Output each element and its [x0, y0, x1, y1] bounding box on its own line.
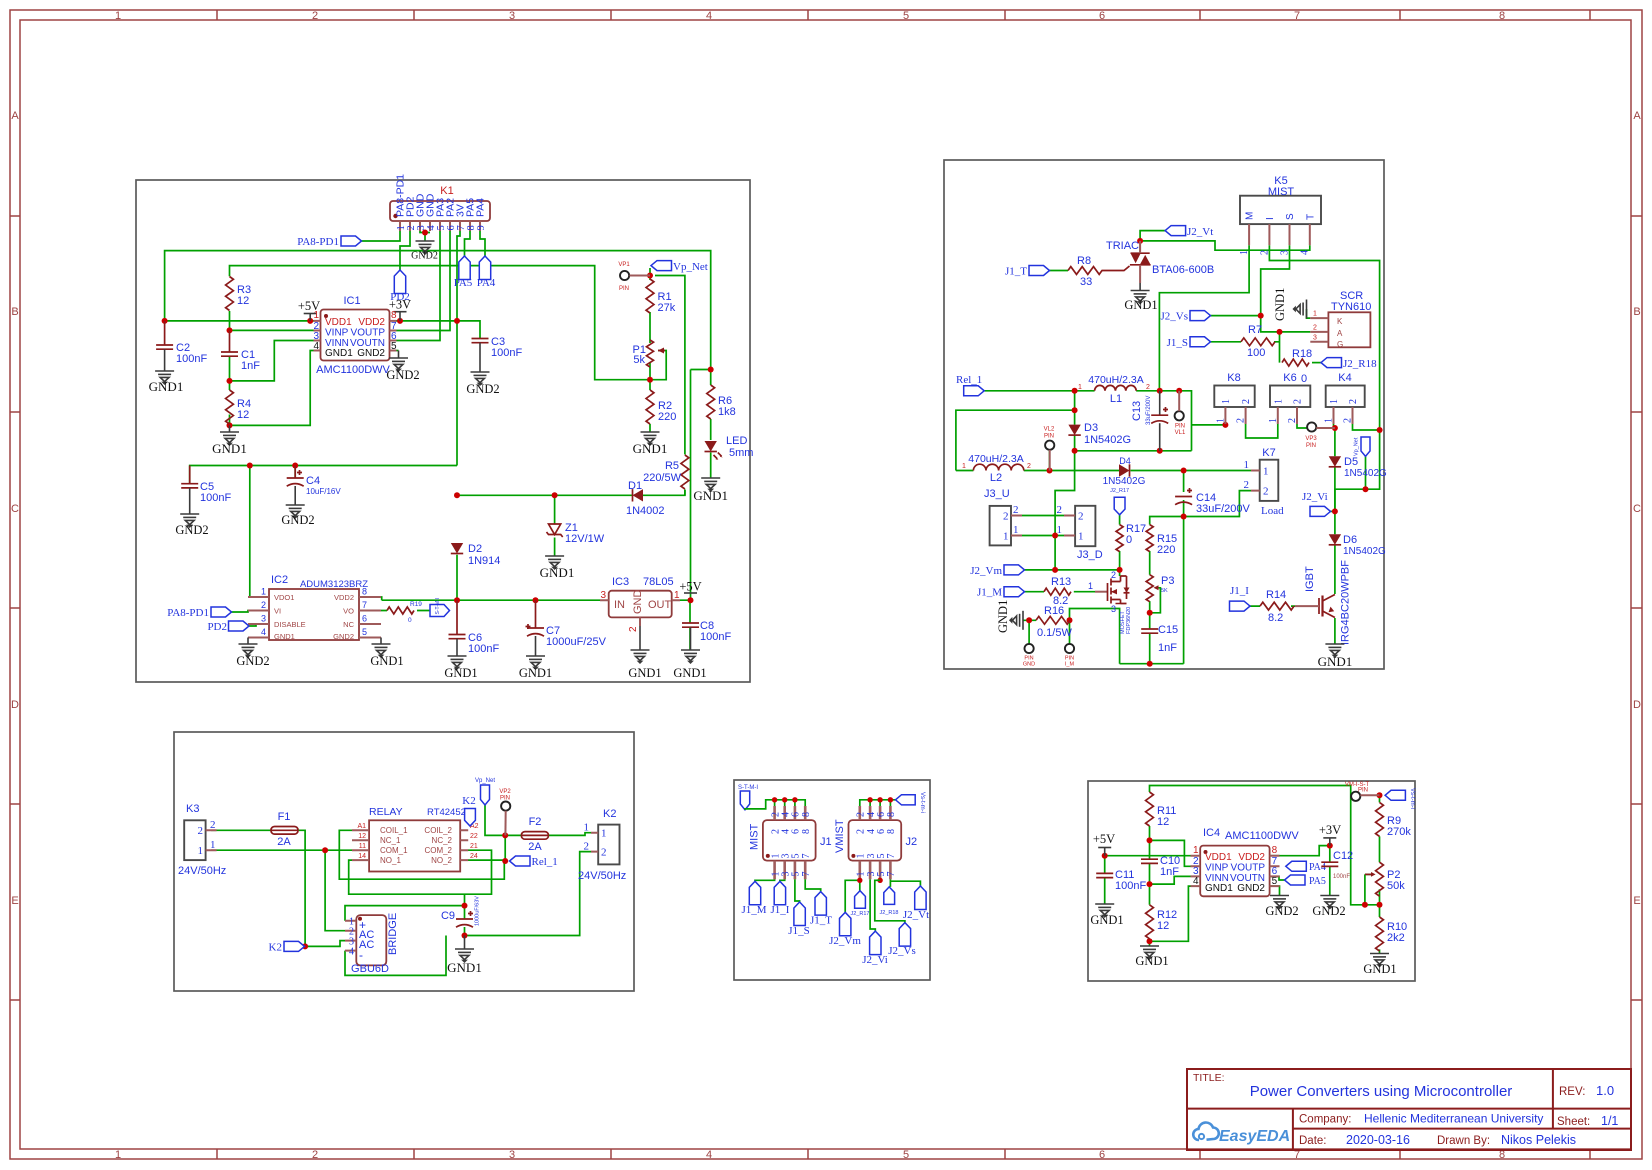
- resistor R19: [387, 607, 414, 614]
- svg-text:1: 1: [1268, 418, 1279, 423]
- ground GND1 under C6: [456, 639, 458, 656]
- svg-text:470uH/2.3A: 470uH/2.3A: [968, 453, 1023, 465]
- svg-text:4: 4: [1300, 250, 1311, 255]
- wire PD2 to IC2 pin3: [249, 624, 269, 626]
- wire J2 top pins: [860, 800, 896, 806]
- svg-text:J1: J1: [820, 836, 832, 848]
- svg-text:1: 1: [1078, 384, 1082, 391]
- block3 border: [174, 732, 634, 991]
- svg-text:24: 24: [470, 853, 478, 860]
- svg-text:33: 33: [1080, 276, 1092, 288]
- connector J3_U: [990, 506, 1011, 546]
- diode D4 1N5402G: [1119, 464, 1130, 476]
- net flag J2_R17 down: [1114, 497, 1125, 515]
- wire NO_2 and Rel_1 flag: [468, 859, 505, 862]
- svg-text:PA8-PD1: PA8-PD1: [297, 236, 339, 248]
- svg-text:5mm: 5mm: [729, 447, 753, 459]
- resistor R8: [1068, 267, 1102, 275]
- title block outer box: [1187, 1069, 1631, 1150]
- svg-text:2: 2: [1313, 324, 1317, 331]
- svg-text:Hellenic Mediterranean Univers: Hellenic Mediterranean University: [1364, 1112, 1543, 1126]
- net flag J1_I: [1230, 601, 1251, 611]
- svg-text:IRG4BC20WPBF: IRG4BC20WPBF: [1340, 560, 1352, 645]
- ground GND1 rotated at R16: [1010, 611, 1023, 630]
- svg-text:1: 1: [198, 845, 204, 857]
- TRIAC BTA06-600B: [1131, 253, 1141, 263]
- junction dots block2: [1137, 238, 1143, 244]
- svg-text:VDD2: VDD2: [334, 593, 354, 602]
- resistor R10: [1376, 917, 1384, 951]
- svg-text:7: 7: [886, 872, 897, 877]
- svg-text:J3_D: J3_D: [1077, 549, 1103, 561]
- ground GND1 rotated at SCR: [1294, 300, 1307, 319]
- svg-text:C: C: [1633, 503, 1641, 515]
- svg-text:3: 3: [1111, 604, 1116, 614]
- svg-text:3: 3: [261, 614, 266, 624]
- svg-text:Sheet:: Sheet:: [1557, 1116, 1590, 1128]
- wire J2_Vs node down to R7 node: [1211, 316, 1311, 332]
- svg-text:L2: L2: [990, 472, 1002, 484]
- ground GND2 under C12: [1320, 896, 1339, 909]
- power +3V block5: [1323, 837, 1336, 839]
- svg-text:2: 2: [1241, 399, 1252, 404]
- svg-text:1N5402G: 1N5402G: [1343, 546, 1386, 557]
- svg-text:0.1/5W: 0.1/5W: [1037, 627, 1072, 639]
- svg-text:VL1: VL1: [1175, 430, 1186, 436]
- svg-text:1: 1: [601, 828, 607, 840]
- wire TRIAC gate to R8: [1050, 270, 1069, 272]
- svg-text:2: 2: [1013, 504, 1019, 516]
- svg-text:K2: K2: [603, 808, 616, 820]
- svg-text:1N5402G: 1N5402G: [1344, 468, 1387, 479]
- wire R11 to C10 junction: [1150, 826, 1191, 866]
- wire K3 pin1 to relay COM_1 and bridge AC2: [211, 850, 352, 931]
- svg-text:R14: R14: [1266, 589, 1286, 601]
- svg-text:E: E: [1633, 895, 1640, 907]
- connector K2 right: [598, 825, 619, 865]
- wire P2 bottom to R10: [1365, 874, 1380, 953]
- ground GND1 under LED: [701, 478, 720, 491]
- wire Vp_Net flag drop: [1365, 456, 1367, 489]
- wire C9 column: [464, 906, 466, 936]
- net flag J2_Vs: [1190, 311, 1211, 321]
- ground GND1 under IC3: [639, 626, 641, 650]
- wire MOSFET bottom rail: [1120, 663, 1184, 665]
- svg-text:5: 5: [362, 627, 367, 637]
- wire K1 pin8 to PA5: [465, 231, 471, 256]
- svg-text:VP1: VP1: [618, 262, 630, 268]
- svg-text:3: 3: [509, 1149, 515, 1161]
- svg-text:VO: VO: [343, 607, 354, 616]
- svg-text:J1_I: J1_I: [1230, 585, 1249, 597]
- ground GND2 under IC1 pin5: [397, 350, 399, 352]
- svg-text:6: 6: [362, 614, 367, 624]
- svg-text:R18: R18: [1292, 348, 1312, 360]
- svg-text:GND1: GND1: [519, 666, 552, 680]
- svg-text:2: 2: [1263, 486, 1269, 498]
- resistor R9: [1376, 802, 1384, 836]
- svg-text:PA5: PA5: [454, 277, 473, 289]
- relay K5: [1240, 196, 1321, 224]
- svg-text:2020-03-16: 2020-03-16: [1346, 1133, 1410, 1147]
- net flag J2_Vt: [915, 886, 926, 910]
- svg-text:C4: C4: [306, 475, 320, 487]
- svg-text:8: 8: [1272, 845, 1278, 856]
- svg-text:GND2: GND2: [1265, 904, 1298, 918]
- connector K7: [1260, 460, 1279, 501]
- svg-text:78L05: 78L05: [643, 576, 674, 588]
- svg-text:K2: K2: [462, 795, 475, 807]
- pin VP3: [1307, 422, 1316, 431]
- wire D3 bottom rail: [1075, 450, 1192, 452]
- svg-text:BTA06-600B: BTA06-600B: [1152, 264, 1214, 276]
- pin PIN GND: [1025, 644, 1034, 653]
- wire VP1 node to R5 column: [650, 268, 685, 455]
- svg-text:1: 1: [1216, 418, 1227, 423]
- svg-text:GND2: GND2: [175, 523, 208, 537]
- net flag J1_T: [1029, 266, 1050, 276]
- svg-text:PIN: PIN: [500, 796, 510, 802]
- resistor R15: [1146, 525, 1153, 552]
- svg-text:GND1: GND1: [628, 666, 661, 680]
- svg-text:C13: C13: [1131, 401, 1143, 421]
- svg-text:GBU6D: GBU6D: [351, 963, 389, 975]
- frame row ticks left: [10, 216, 20, 1000]
- svg-text:R5: R5: [665, 460, 679, 472]
- MOSFET FDP36N20: [1095, 576, 1127, 604]
- net flag PA4 block5: [1286, 861, 1307, 871]
- wire +5V rail: [165, 251, 711, 601]
- svg-text:IC1: IC1: [343, 295, 360, 307]
- svg-text:33uF/200V: 33uF/200V: [1146, 396, 1152, 425]
- svg-text:FDP36N20: FDP36N20: [1126, 607, 1132, 634]
- svg-text:D3: D3: [1084, 422, 1098, 434]
- svg-text:R8: R8: [1077, 255, 1091, 267]
- svg-text:GND2: GND2: [1237, 883, 1265, 894]
- wire top rail R11 to P2 column: [1150, 786, 1380, 905]
- svg-text:PIN: PIN: [1306, 443, 1316, 449]
- svg-text:J2_Vs: J2_Vs: [1160, 311, 1188, 323]
- svg-text:GND2: GND2: [236, 654, 269, 668]
- inductor L1: [1095, 385, 1137, 390]
- net flag S-T-M-I: [740, 791, 749, 810]
- svg-text:2: 2: [198, 825, 204, 837]
- svg-text:7: 7: [886, 854, 897, 859]
- wire R1 P1 R2 column: [649, 312, 651, 432]
- capacitor C15: [1141, 629, 1158, 633]
- wire K1 pin1 to PA8-PD1 flag: [361, 231, 400, 241]
- svg-text:100nF: 100nF: [491, 347, 522, 359]
- wire IC3 out to +5V: [680, 600, 690, 623]
- svg-text:12V/1W: 12V/1W: [565, 533, 605, 545]
- svg-text:J3_U: J3_U: [984, 488, 1010, 500]
- svg-text:1: 1: [1324, 418, 1335, 423]
- wire P2 wiper: [1365, 873, 1372, 875]
- junction dots block3: [322, 847, 328, 853]
- fuse F1: [271, 827, 298, 835]
- bridge GBU6D: [356, 915, 386, 965]
- svg-text:REV:: REV:: [1559, 1086, 1585, 1098]
- diode D3 1N5402G: [1068, 425, 1080, 436]
- title block row divider 1: [1187, 1108, 1631, 1110]
- capacitor C3: [472, 339, 489, 343]
- wire J2 pin5 to J2_Vs: [875, 880, 905, 922]
- diode D1 1N4002: [633, 489, 644, 501]
- capacitor C13 polarized: [1159, 391, 1161, 415]
- svg-text:D: D: [1633, 699, 1641, 711]
- net flag J2_Vi: [1310, 506, 1331, 516]
- capacitor C14 polarized: [1175, 497, 1192, 505]
- svg-text:TYN610: TYN610: [1331, 301, 1371, 313]
- svg-text:Load: Load: [1261, 505, 1284, 517]
- wire C11 column: [1104, 856, 1106, 904]
- relay RT424524: [369, 820, 460, 871]
- svg-text:NO_1: NO_1: [380, 856, 401, 865]
- svg-text:11: 11: [359, 843, 366, 850]
- svg-text:1: 1: [1329, 399, 1340, 404]
- svg-text:K7: K7: [1262, 447, 1275, 459]
- svg-text:GND1: GND1: [212, 441, 247, 456]
- svg-text:NO_2: NO_2: [431, 856, 452, 865]
- svg-text:M: M: [1245, 212, 1256, 220]
- svg-text:27k: 27k: [658, 302, 676, 314]
- svg-text:VDD2: VDD2: [358, 317, 385, 328]
- block2 border: [944, 160, 1384, 669]
- wire IC1 pin3 VINN: [230, 341, 314, 381]
- svg-text:GND1: GND1: [693, 488, 728, 503]
- svg-text:8: 8: [886, 829, 897, 834]
- svg-text:1: 1: [115, 1149, 121, 1161]
- capacitor C1: [229, 330, 231, 352]
- svg-text:TITLE:: TITLE:: [1193, 1072, 1225, 1084]
- ground GND1 under IC2 pin5: [380, 638, 382, 645]
- svg-text:1: 1: [1263, 466, 1269, 478]
- svg-text:Vp_Net: Vp_Net: [475, 778, 495, 784]
- wire Vp_Net rail R3 to P1: [230, 266, 651, 380]
- svg-text:K3: K3: [186, 803, 199, 815]
- SCR TYN610: [1328, 312, 1370, 347]
- ground GND1 under R10: [1370, 954, 1389, 967]
- svg-text:GND1: GND1: [370, 654, 403, 668]
- junction dots J2 bottom: [857, 878, 862, 883]
- inductor L2: [973, 464, 1023, 470]
- net flag Rel_1: [964, 386, 985, 396]
- capacitor C10: [1141, 859, 1158, 863]
- wire R7 to R18: [1211, 332, 1280, 363]
- svg-text:B: B: [1633, 306, 1640, 318]
- wire R14 to IGBT gate: [1250, 605, 1295, 607]
- wire K6 pin2 to VP3: [1297, 424, 1307, 428]
- resistor R3: [226, 277, 234, 311]
- net flag K2 top: [465, 809, 476, 827]
- svg-text:C: C: [11, 503, 19, 515]
- svg-text:P3: P3: [1161, 575, 1174, 587]
- wire J2_Vm rail: [1025, 569, 1120, 571]
- resistor R5: [681, 455, 689, 489]
- wire 3V column K1 pin7: [457, 231, 460, 466]
- svg-text:2A: 2A: [528, 841, 542, 853]
- svg-text:270k: 270k: [1387, 826, 1411, 838]
- EasyEDA logo cloud: [1193, 1123, 1219, 1140]
- svg-text:Vs-t-m-i: Vs-t-m-i: [1409, 788, 1415, 809]
- capacitor C5: [189, 466, 191, 484]
- ground GND2 under K1: [416, 241, 435, 254]
- svg-text:DISABLE: DISABLE: [274, 620, 306, 629]
- svg-text:2: 2: [210, 819, 216, 831]
- svg-text:LED: LED: [726, 435, 747, 447]
- svg-text:GND2: GND2: [333, 632, 354, 641]
- wire K1 pin5 to VOUTN: [397, 231, 441, 341]
- wire R6 LED column: [691, 370, 711, 479]
- pin VL2: [1045, 441, 1054, 450]
- svg-text:GND1: GND1: [1135, 954, 1168, 968]
- svg-text:1N4002: 1N4002: [626, 505, 665, 517]
- wire C12 column: [1329, 846, 1331, 896]
- svg-text:2: 2: [312, 1149, 318, 1161]
- svg-text:GND1: GND1: [1090, 913, 1123, 927]
- net flag PA8-PD1 at IC2: [211, 607, 232, 617]
- svg-text:470uH/2.3A: 470uH/2.3A: [1088, 374, 1143, 386]
- svg-text:I: I: [1265, 217, 1276, 220]
- svg-text:12: 12: [1157, 816, 1169, 828]
- capacitor C2: [164, 321, 166, 345]
- svg-text:J2_Vt: J2_Vt: [1187, 226, 1213, 238]
- wire Rel_1 to L1: [985, 390, 1095, 392]
- svg-text:VOUTP: VOUTP: [1231, 863, 1266, 874]
- wire K5 pin1 to spine: [1159, 245, 1249, 390]
- block4 border: [734, 780, 930, 980]
- title block row divider 2: [1293, 1128, 1631, 1130]
- svg-text:BRIDGE: BRIDGE: [387, 913, 399, 955]
- svg-text:2: 2: [261, 600, 266, 610]
- svg-text:100nF: 100nF: [176, 353, 207, 365]
- svg-text:Rel_1: Rel_1: [956, 374, 982, 386]
- svg-text:J1_I: J1_I: [771, 904, 790, 916]
- svg-text:6: 6: [1099, 10, 1105, 22]
- ground GND1 under Z1: [545, 556, 564, 569]
- capacitor C12: [1321, 862, 1338, 866]
- svg-text:IC3: IC3: [612, 576, 629, 588]
- ground GND1 under C8: [690, 627, 692, 650]
- wire J3_U to J3_D pins: [1022, 516, 1064, 536]
- wire K1 pins3-4 GND2: [420, 231, 430, 241]
- capacitor C11: [1096, 873, 1113, 877]
- pin VP1: [620, 271, 629, 280]
- svg-text:1nF: 1nF: [1158, 642, 1177, 654]
- net flag J2_Vi: [870, 931, 881, 955]
- net flag PA8-PD1 top: [341, 236, 362, 246]
- net flag PA5: [459, 256, 470, 280]
- svg-text:C9: C9: [441, 910, 455, 922]
- svg-text:220: 220: [1157, 544, 1175, 556]
- svg-text:GND1: GND1: [633, 441, 668, 456]
- svg-text:1nF: 1nF: [241, 360, 260, 372]
- svg-text:T: T: [1305, 214, 1316, 220]
- wire VP3 to D5 column: [1334, 424, 1380, 430]
- wire C9 bottom to K2 pin2: [465, 852, 592, 936]
- wire C15 bottom: [1149, 633, 1151, 664]
- svg-text:D2: D2: [468, 543, 482, 555]
- svg-text:PIN: PIN: [1175, 424, 1185, 430]
- svg-text:1000uF/63V: 1000uF/63V: [475, 896, 481, 926]
- svg-text:GND2: GND2: [411, 251, 438, 262]
- potentiometer P2: [1376, 862, 1384, 896]
- junction dots: [162, 318, 168, 324]
- potentiometer P3: [1146, 575, 1153, 602]
- svg-text:PIN: PIN: [1044, 434, 1054, 440]
- wire bridge minus to GND rail: [345, 936, 446, 976]
- wire R5 to D1: [684, 490, 686, 496]
- header K1: [390, 201, 490, 221]
- svg-text:220: 220: [658, 411, 676, 423]
- svg-text:2: 2: [312, 10, 318, 22]
- svg-text:S: S: [1285, 213, 1296, 220]
- svg-text:1: 1: [1088, 581, 1093, 591]
- svg-text:J2_Vm: J2_Vm: [829, 935, 861, 947]
- pin PIN I_M: [1065, 644, 1074, 653]
- svg-text:IC4: IC4: [1203, 827, 1220, 839]
- svg-text:S-T-M-I: S-T-M-I: [738, 785, 758, 791]
- wire L1 out rail: [1136, 391, 1225, 451]
- svg-text:1k8: 1k8: [718, 406, 736, 418]
- svg-text:2: 2: [1287, 418, 1298, 423]
- wire bridge plus to C9: [345, 906, 465, 921]
- wire D3 column: [1074, 391, 1076, 451]
- svg-text:COIL_1: COIL_1: [380, 826, 408, 835]
- svg-text:1: 1: [313, 310, 319, 321]
- svg-text:K2: K2: [269, 941, 282, 953]
- svg-text:J2_R17: J2_R17: [1110, 488, 1129, 494]
- svg-text:5K: 5K: [1161, 588, 1168, 594]
- svg-text:D1: D1: [628, 480, 642, 492]
- wire Z1 to GND1: [554, 538, 556, 557]
- svg-text:4: 4: [261, 627, 266, 637]
- svg-text:3: 3: [1279, 250, 1290, 255]
- wire J2 pin1 to J2_Vm and J2_R17: [845, 879, 860, 912]
- svg-text:Power Converters using Microco: Power Converters using Microcontroller: [1250, 1083, 1513, 1100]
- svg-text:8: 8: [801, 812, 812, 817]
- svg-text:IN: IN: [614, 599, 625, 611]
- svg-text:I_M: I_M: [1065, 662, 1075, 668]
- LED: [705, 441, 717, 452]
- IC4 AMC1100DWV: [1200, 846, 1269, 897]
- wire J1 pin1 to J1_M: [755, 879, 775, 881]
- wire K1 pin2 to PD2 flag: [400, 231, 410, 270]
- svg-text:GND1: GND1: [447, 960, 482, 975]
- svg-text:2: 2: [1146, 384, 1150, 391]
- wire K3 pin2 to F1: [211, 829, 271, 831]
- svg-text:Vs-t-m-i: Vs-t-m-i: [919, 792, 925, 813]
- svg-text:J2_R18: J2_R18: [1343, 358, 1377, 370]
- svg-text:+5V: +5V: [1093, 832, 1115, 846]
- svg-text:GND1: GND1: [540, 565, 575, 580]
- wire R17 column: [1119, 515, 1121, 576]
- svg-text:1N5402G: 1N5402G: [1103, 476, 1146, 487]
- net flag J1_M: [1004, 587, 1025, 597]
- svg-text:K8: K8: [1227, 372, 1240, 384]
- net flag PA5 block5: [1285, 875, 1306, 885]
- svg-text:D4: D4: [1119, 456, 1131, 466]
- connector K6: [1270, 386, 1310, 408]
- wire SCR K to GND: [1307, 309, 1311, 318]
- svg-text:100nF: 100nF: [1333, 874, 1350, 880]
- svg-text:GND: GND: [632, 590, 644, 615]
- IC2 ADUM3123BRZ: [269, 589, 359, 640]
- ground GND2 under IC2 pin4: [247, 638, 249, 645]
- svg-text:1: 1: [962, 463, 966, 470]
- svg-text:NC_2: NC_2: [432, 836, 453, 845]
- svg-text:7: 7: [801, 854, 812, 859]
